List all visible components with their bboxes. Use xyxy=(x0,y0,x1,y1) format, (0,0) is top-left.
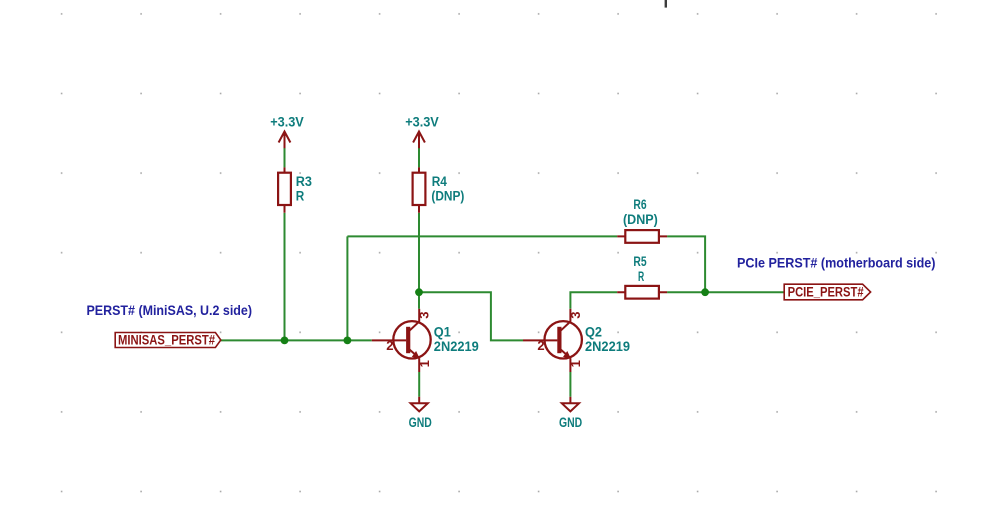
resistor R6 xyxy=(617,230,667,243)
teal field texts xyxy=(270,115,658,431)
svg-text:R6: R6 xyxy=(633,197,647,212)
svg-text:PERST# (MiniSAS, U.2 side): PERST# (MiniSAS, U.2 side) xyxy=(87,302,253,318)
resistor R5 xyxy=(617,286,667,299)
svg-text:Q2: Q2 xyxy=(585,324,602,339)
junction at R3/base wire xyxy=(281,337,289,345)
junction at R5/R6 output node xyxy=(701,288,709,296)
resistor R4 xyxy=(413,167,426,212)
svg-text:R: R xyxy=(638,269,644,284)
wire Q2 collector riser xyxy=(570,292,617,309)
svg-text:GND: GND xyxy=(559,415,582,430)
svg-text:+3.3V: +3.3V xyxy=(405,115,439,130)
svg-text:2: 2 xyxy=(537,338,544,353)
wire Q1 collector to Q2 base xyxy=(419,292,523,340)
power symbol +3.3V at R4 xyxy=(413,132,425,149)
wire R5 to junction to PCIE label xyxy=(667,291,784,293)
svg-text:R4: R4 xyxy=(432,174,448,189)
junction at Q1 collector node xyxy=(415,288,423,296)
wire R3 bottom xyxy=(284,213,286,341)
svg-text:MINISAS_PERST#: MINISAS_PERST# xyxy=(118,333,215,348)
svg-text:+3.3V: +3.3V xyxy=(270,115,304,130)
transistor Q2 xyxy=(523,309,582,372)
ground at Q2 xyxy=(562,397,579,412)
wire R6 right down to junction xyxy=(667,236,705,292)
power symbol +3.3V at R3 xyxy=(279,132,291,149)
ground at Q1 xyxy=(411,397,428,412)
junction dots xyxy=(281,288,709,344)
wire row1 to R6 xyxy=(347,235,617,237)
wire R4 power xyxy=(418,148,420,167)
svg-text:3: 3 xyxy=(417,311,432,318)
svg-text:R: R xyxy=(296,189,305,204)
svg-text:R5: R5 xyxy=(633,254,647,269)
svg-text:R3: R3 xyxy=(296,174,313,189)
wire Q1 emitter to gnd xyxy=(418,372,420,397)
cursor tick xyxy=(665,0,667,8)
svg-text:Q1: Q1 xyxy=(434,324,451,339)
pin numbers Q1 xyxy=(386,311,583,367)
junction at riser/base wire xyxy=(344,337,352,345)
transistor Q1 xyxy=(372,309,431,372)
wire vertical riser xyxy=(346,236,348,340)
svg-text:(DNP): (DNP) xyxy=(623,212,658,227)
svg-text:3: 3 xyxy=(568,311,583,318)
svg-text:1: 1 xyxy=(568,360,583,367)
svg-text:PCIe PERST# (motherboard side): PCIe PERST# (motherboard side) xyxy=(737,255,936,271)
wire Q2 emitter to gnd xyxy=(569,372,571,397)
wire R4 bottom xyxy=(418,213,420,309)
svg-text:PCIE_PERST#: PCIE_PERST# xyxy=(788,285,864,300)
svg-text:GND: GND xyxy=(409,415,432,430)
svg-text:(DNP): (DNP) xyxy=(431,189,464,204)
note texts blue xyxy=(87,255,936,318)
wire R3 power xyxy=(284,148,286,167)
svg-text:1: 1 xyxy=(417,360,432,367)
global label MINISAS_PERST# xyxy=(115,333,221,348)
global label PCIE_PERST# xyxy=(784,284,870,300)
svg-text:2: 2 xyxy=(386,338,393,353)
svg-text:2N2219: 2N2219 xyxy=(585,339,630,354)
resistor R3 xyxy=(278,167,291,212)
wire label to Q1 base xyxy=(221,339,372,341)
svg-text:2N2219: 2N2219 xyxy=(434,339,479,354)
